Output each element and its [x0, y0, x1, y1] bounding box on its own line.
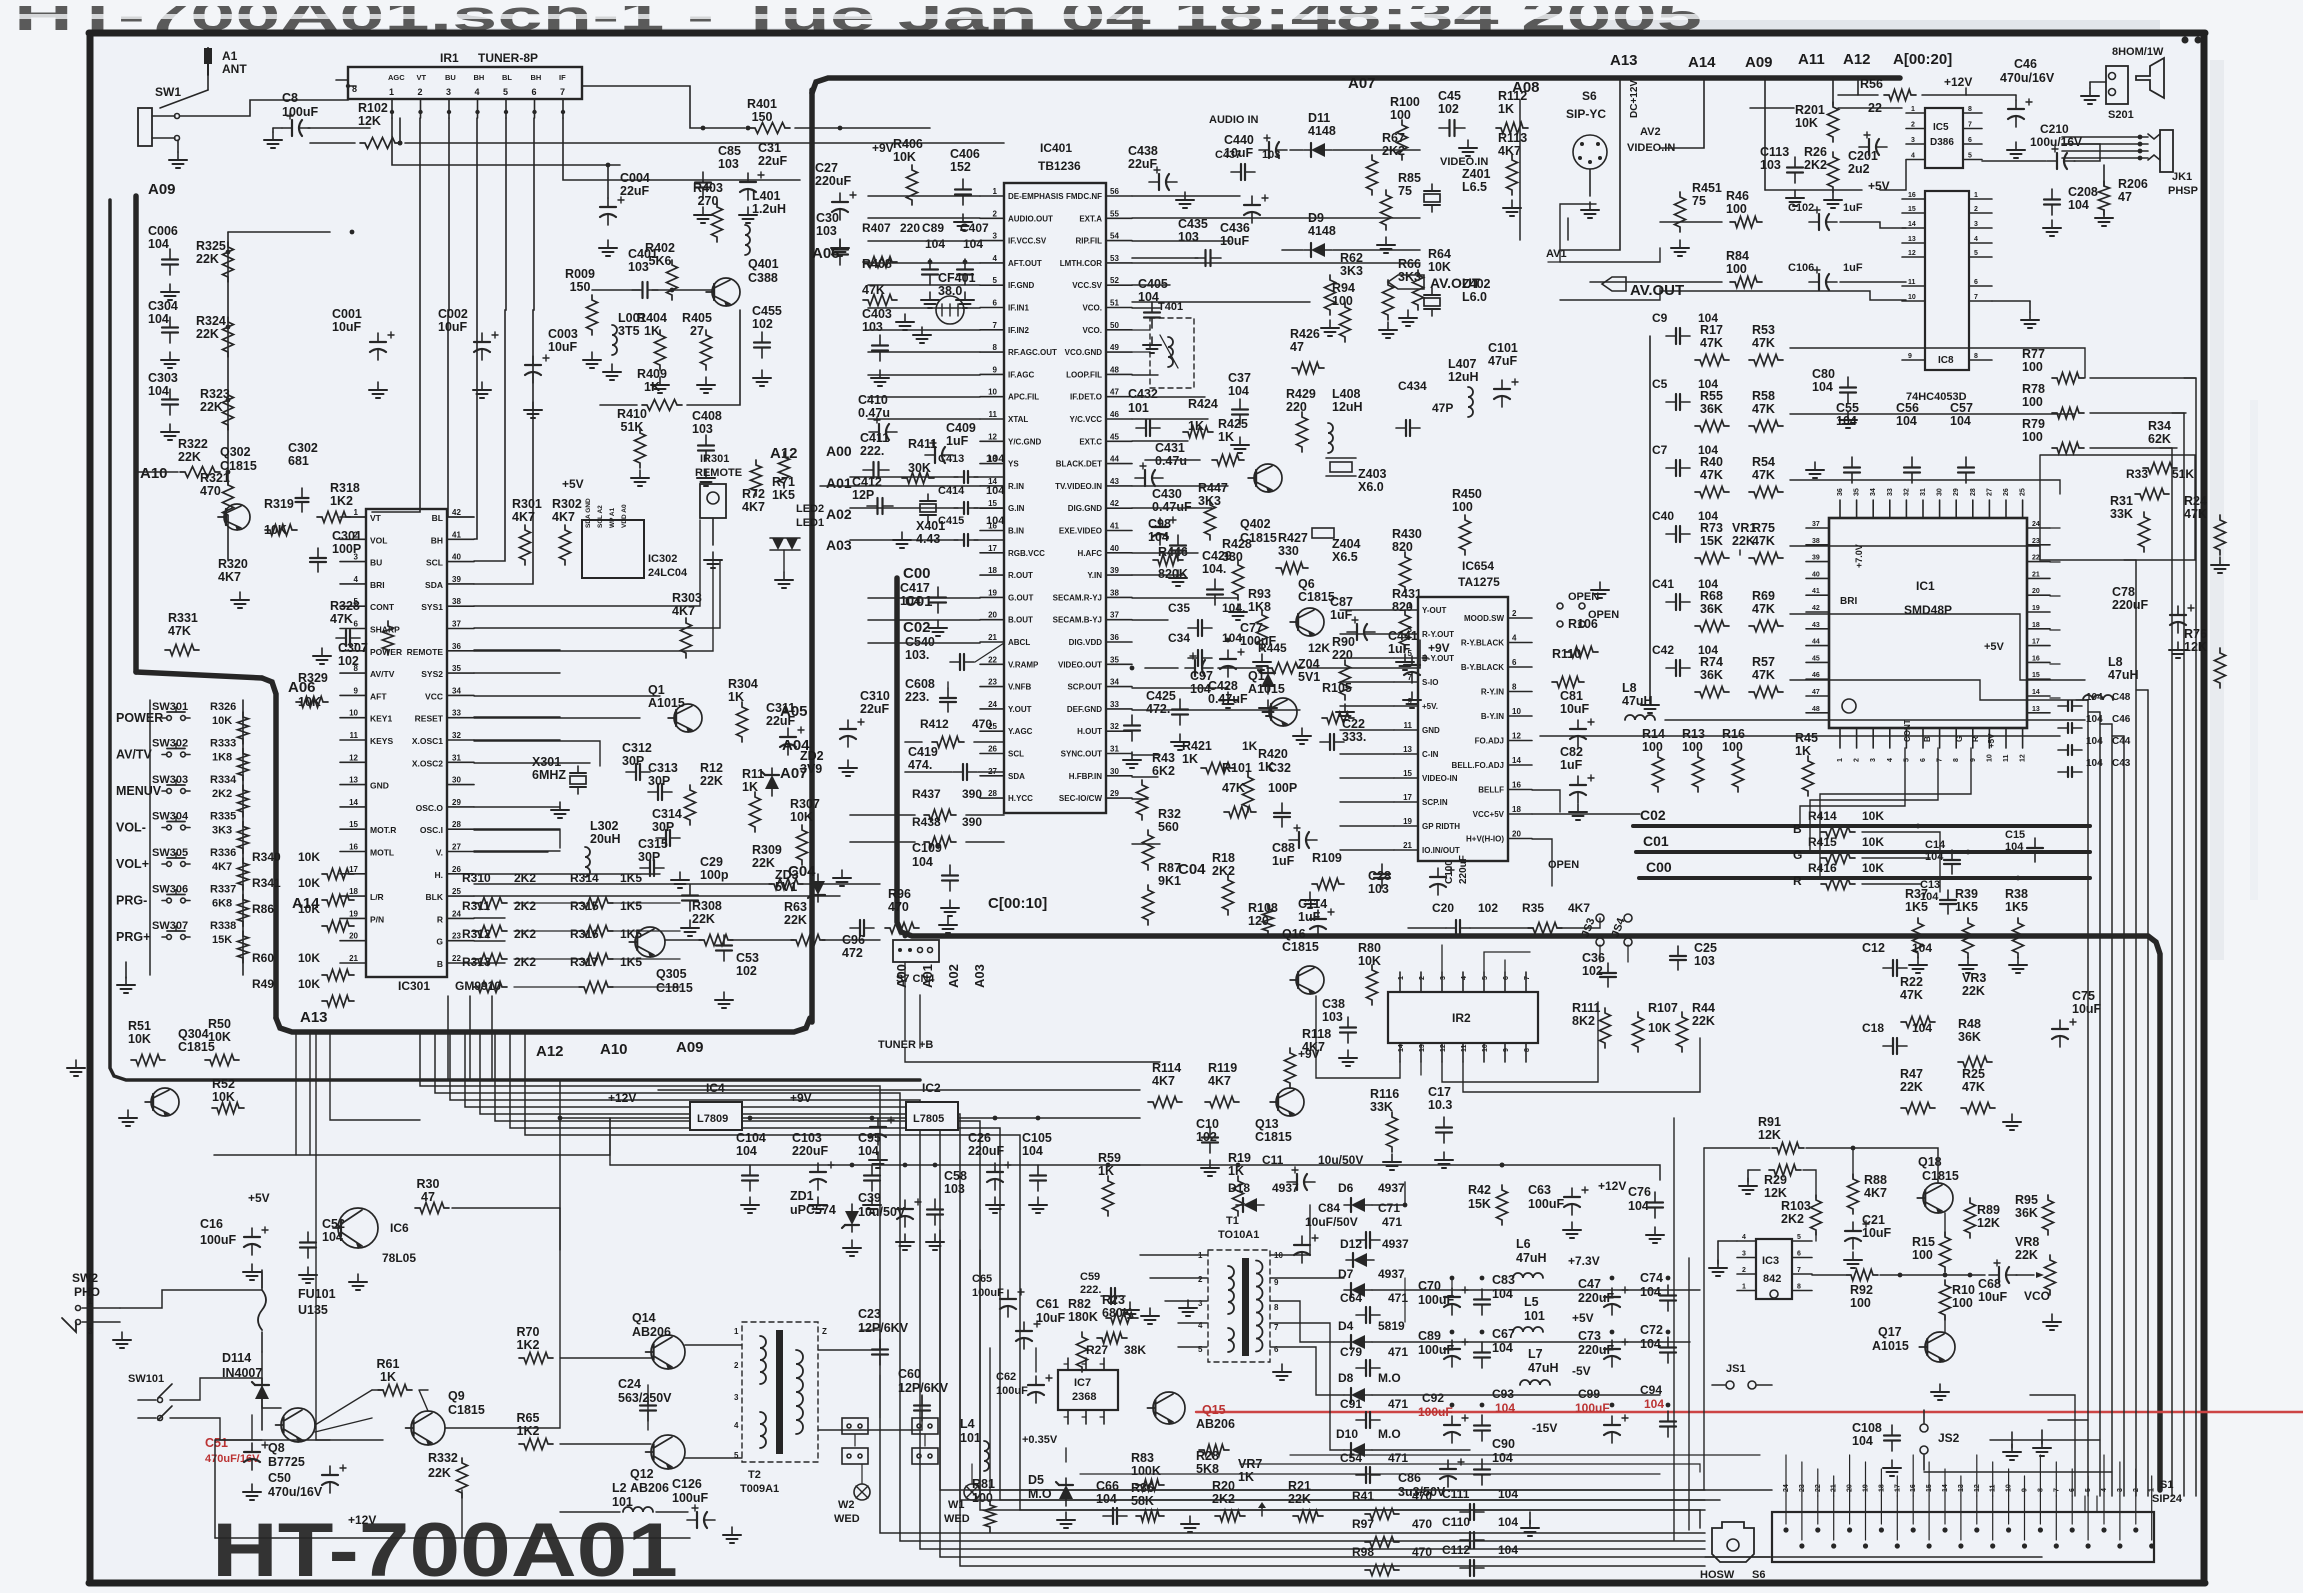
svg-text:R311: R311 — [462, 899, 490, 913]
S1 riser 8 — [2039, 1455, 2041, 1496]
svg-text:S-IO: S-IO — [1422, 678, 1438, 687]
svg-text:C102: C102 — [1788, 202, 1814, 214]
svg-text:Z: Z — [822, 1327, 827, 1336]
svg-text:VOL+: VOL+ — [116, 857, 149, 871]
IC1 bottom pin 8 — [1955, 728, 1957, 748]
wire ic3 row — [1812, 1274, 1845, 1276]
svg-text:M.O: M.O — [1378, 1427, 1401, 1441]
svg-text:Y/C.VCC: Y/C.VCC — [1070, 415, 1103, 424]
S1 riser 11 — [1992, 1462, 1994, 1496]
IC301 pin 20 nc — [340, 940, 366, 942]
svg-text:R303: R303 — [672, 591, 702, 605]
svg-text:R83: R83 — [1131, 1451, 1154, 1465]
svg-text:C408: C408 — [692, 409, 722, 423]
svg-text:Q16: Q16 — [1282, 927, 1306, 941]
wire ic654 r20 drop — [1532, 839, 1552, 886]
svg-text:12P/6KV: 12P/6KV — [898, 1381, 949, 1395]
wire c51 rail — [251, 1415, 253, 1440]
svg-text:38: 38 — [1110, 588, 1119, 597]
svg-text:S1: S1 — [2160, 1479, 2173, 1491]
svg-text:30: 30 — [1110, 767, 1119, 776]
svg-text:47uF: 47uF — [1488, 354, 1518, 368]
svg-text:C26: C26 — [968, 1131, 991, 1145]
svg-text:470: 470 — [1412, 1489, 1432, 1503]
svg-text:Q12: Q12 — [630, 1467, 654, 1481]
svg-text:C441: C441 — [1388, 629, 1418, 643]
IC401 pin 37 SECAM.B-YJ — [1106, 619, 1132, 621]
bus wire right 4 — [2135, 560, 2137, 1496]
svg-text:0.47uF: 0.47uF — [1152, 500, 1192, 514]
svg-text:39: 39 — [1812, 555, 1820, 562]
svg-text:R317: R317 — [570, 955, 599, 969]
svg-text:OSC.O: OSC.O — [416, 803, 444, 813]
svg-text:SIP-YC: SIP-YC — [1566, 107, 1606, 121]
IC7 top pin 2 — [1103, 1358, 1105, 1370]
svg-text:1K5: 1K5 — [620, 955, 642, 969]
svg-text:1: 1 — [354, 508, 359, 517]
svg-text:BLK: BLK — [426, 892, 444, 902]
svg-text:10K: 10K — [128, 1032, 151, 1046]
wire remote row — [474, 560, 713, 651]
svg-text:9: 9 — [1274, 1278, 1279, 1287]
wire ic654 left feed 3 — [1340, 681, 1394, 683]
svg-text:IC654: IC654 — [1462, 559, 1494, 573]
svg-text:R23: R23 — [1102, 1293, 1125, 1307]
svg-text:MENUV: MENUV — [116, 784, 162, 798]
wire ic401 right ext y419 — [1132, 418, 1208, 420]
svg-text:C434: C434 — [1398, 379, 1427, 393]
svg-text:C50: C50 — [268, 1471, 291, 1485]
svg-text:Q305: Q305 — [656, 967, 687, 981]
svg-text:C37: C37 — [1228, 371, 1251, 385]
IC3 pin l0 — [1737, 1240, 1756, 1242]
IC U401 TB1236 body — [1004, 183, 1106, 813]
svg-text:4937: 4937 — [1382, 1237, 1409, 1251]
svg-text:100uF: 100uF — [972, 1287, 1004, 1299]
svg-text:14: 14 — [1512, 756, 1521, 765]
bus A[00:20] top rail — [812, 78, 1900, 93]
svg-text:C92: C92 — [1422, 1391, 1444, 1405]
svg-text:390: 390 — [962, 815, 982, 829]
svg-text:12uH: 12uH — [1332, 400, 1363, 414]
IC401 pin 18 R.OUT — [980, 574, 1004, 576]
wire av out row — [1660, 291, 1906, 300]
wire ir2 p11 out — [1463, 1038, 1700, 1092]
svg-text:A09: A09 — [676, 1039, 704, 1056]
svg-text:IR1: IR1 — [440, 51, 459, 65]
svg-text:C17: C17 — [1428, 1085, 1451, 1099]
svg-text:C419: C419 — [908, 745, 938, 759]
svg-text:D10: D10 — [1336, 1427, 1358, 1441]
svg-text:C30: C30 — [816, 211, 839, 225]
svg-text:4937: 4937 — [1272, 1181, 1299, 1195]
svg-text:A1: A1 — [222, 49, 238, 63]
svg-text:H.OUT: H.OUT — [1077, 727, 1102, 736]
svg-text:5: 5 — [1968, 153, 1972, 160]
svg-text:A11: A11 — [1798, 51, 1825, 68]
S1 pin 4 — [2101, 1527, 2106, 1532]
svg-text:Z403: Z403 — [1358, 467, 1387, 481]
svg-text:104: 104 — [1498, 1515, 1518, 1529]
svg-text:33: 33 — [1110, 700, 1119, 709]
svg-text:C403: C403 — [862, 307, 892, 321]
svg-text:3: 3 — [1870, 758, 1877, 762]
wire ic401 left feed 11 — [868, 597, 980, 599]
svg-text:104: 104 — [1852, 1434, 1873, 1448]
svg-text:R320: R320 — [218, 557, 248, 571]
svg-text:R81: R81 — [972, 1477, 995, 1491]
svg-text:C81: C81 — [1560, 689, 1583, 703]
IC7 bottom pin 1 — [1085, 1410, 1087, 1424]
wire drop BH6 — [474, 118, 534, 584]
wire matrix out3 — [1790, 480, 2060, 494]
svg-text:12K: 12K — [358, 114, 381, 128]
svg-text:6K2: 6K2 — [1152, 764, 1175, 778]
svg-text:PHO: PHO — [74, 1285, 100, 1299]
svg-text:SYNC.OUT: SYNC.OUT — [1061, 750, 1102, 759]
svg-text:13: 13 — [349, 776, 358, 785]
svg-text:8: 8 — [1953, 758, 1960, 762]
wire matrix out4 — [1790, 546, 2040, 560]
svg-text:R301: R301 — [512, 497, 542, 511]
IC1 right pin 18 — [2027, 628, 2050, 630]
svg-text:BRI: BRI — [370, 580, 385, 590]
svg-text:24: 24 — [988, 700, 997, 709]
svg-text:C54: C54 — [1340, 1451, 1362, 1465]
svg-text:10K: 10K — [298, 977, 320, 991]
svg-text:12K: 12K — [1758, 1128, 1781, 1142]
svg-text:R324: R324 — [196, 314, 226, 328]
bus C01 right — [1636, 850, 2090, 854]
wire ic401 right ext y308 — [1132, 307, 1160, 309]
svg-text:AFT.OUT: AFT.OUT — [1008, 259, 1042, 268]
svg-text:IC5: IC5 — [1933, 122, 1949, 133]
svg-text:12: 12 — [2020, 754, 2027, 762]
IC5 pin r7 — [1963, 128, 1982, 130]
S1 pin 2 — [2133, 1527, 2138, 1532]
svg-text:R55: R55 — [1700, 389, 1723, 403]
svg-text:6: 6 — [1974, 279, 1978, 286]
svg-text:10K: 10K — [298, 951, 320, 965]
svg-text:R421: R421 — [1182, 739, 1212, 753]
svg-text:104.: 104. — [1222, 601, 1245, 615]
wire psu caps rail — [1404, 1278, 1406, 1322]
svg-text:KEYS: KEYS — [370, 736, 393, 746]
wire drop BU — [448, 118, 474, 517]
svg-text:47K: 47K — [1700, 468, 1723, 482]
wire r59 rail — [1108, 1165, 1660, 1180]
IC401 pin 42 DIG.GND — [1106, 507, 1132, 509]
IC401 pin 29 SEC-IO/CW — [1106, 797, 1132, 799]
svg-text:3: 3 — [354, 553, 359, 562]
IC5 pin r8 — [1963, 112, 1982, 114]
svg-text:C105: C105 — [1022, 1131, 1052, 1145]
svg-text:100: 100 — [1726, 202, 1747, 216]
IR2 bottom pin 11 — [1462, 1043, 1464, 1062]
svg-text:10K: 10K — [1862, 809, 1884, 823]
svg-text:L8: L8 — [2108, 655, 2123, 669]
svg-text:19: 19 — [988, 588, 997, 597]
S1 riser 19 — [1865, 1462, 1867, 1496]
svg-text:10uF: 10uF — [1224, 146, 1254, 160]
svg-text:1: 1 — [1911, 106, 1915, 113]
svg-text:R307: R307 — [790, 797, 820, 811]
svg-text:10K: 10K — [212, 715, 232, 727]
bus C02 right — [1633, 824, 2090, 828]
svg-text:104: 104 — [1812, 380, 1833, 394]
svg-text:22K: 22K — [196, 252, 219, 266]
IC8 pin l 15 — [1902, 212, 1925, 214]
svg-text:47: 47 — [421, 1190, 435, 1204]
svg-text:C00: C00 — [1646, 859, 1672, 875]
IC401 pin 12 Y/C.GND — [980, 440, 1004, 442]
svg-text:LED1: LED1 — [796, 517, 824, 529]
svg-text:16: 16 — [1908, 192, 1916, 199]
svg-text:47P: 47P — [1432, 401, 1453, 415]
S1 riser 13 — [1960, 1476, 1962, 1496]
svg-text:C93: C93 — [1492, 1387, 1514, 1401]
IC1 bottom pin 11 — [2005, 728, 2007, 748]
wire ic401 right ext y441 — [1132, 440, 1188, 442]
svg-text:47uH: 47uH — [1528, 1361, 1559, 1375]
svg-text:Y.AGC: Y.AGC — [1008, 727, 1033, 736]
svg-text:32: 32 — [1903, 488, 1910, 496]
svg-text:G: G — [1793, 848, 1802, 862]
svg-text:Q9: Q9 — [448, 1389, 465, 1403]
svg-text:C89: C89 — [922, 221, 944, 235]
svg-text:L7805: L7805 — [913, 1113, 944, 1125]
svg-text:OPEN: OPEN — [1588, 609, 1619, 621]
svg-text:22K: 22K — [752, 856, 775, 870]
svg-text:1K: 1K — [1498, 102, 1514, 116]
wire r415 to c14 — [1862, 857, 1930, 859]
svg-text:IC1: IC1 — [1916, 579, 1935, 593]
wire rgb link R312 — [474, 958, 476, 960]
wire left col drop2 — [295, 1032, 297, 1155]
svg-text:48: 48 — [1812, 706, 1820, 713]
svg-text:C414: C414 — [938, 485, 965, 497]
svg-text:15: 15 — [2032, 672, 2040, 679]
bus wire right 3 — [2123, 736, 2125, 1496]
svg-text:AB206: AB206 — [1196, 1417, 1235, 1431]
IC654 pin 5 B-Y.OUT — [1394, 657, 1418, 659]
svg-text:44: 44 — [1110, 455, 1119, 464]
svg-text:Q13: Q13 — [1255, 1117, 1279, 1131]
svg-text:1uF: 1uF — [1298, 910, 1321, 924]
svg-text:A06: A06 — [812, 245, 840, 262]
svg-text:C1815: C1815 — [448, 1403, 485, 1417]
svg-text:C72: C72 — [1640, 1323, 1663, 1337]
wire ic654 left feed 6 — [1340, 753, 1394, 755]
svg-text:3: 3 — [1408, 625, 1413, 634]
open jumpers — [1557, 603, 1563, 609]
IR2 bottom pin 12 — [1441, 1043, 1443, 1062]
IC301 pin 34 VCC — [447, 694, 474, 696]
svg-text:470: 470 — [200, 484, 221, 498]
svg-text:VCC: VCC — [425, 691, 443, 701]
svg-text:IC2: IC2 — [922, 1081, 941, 1095]
IR2 top pin 7 — [1525, 972, 1527, 992]
IC1 pin1 mark — [1842, 699, 1856, 713]
IC654 pin 16 BELLF — [1508, 789, 1532, 791]
bus wire right 8 — [2183, 413, 2185, 1496]
wire sys rows — [474, 560, 720, 628]
svg-text:BELL.FO.ADJ: BELL.FO.ADJ — [1452, 761, 1504, 770]
transistor Q1 A1015 — [1269, 698, 1297, 726]
gnd Q304 — [127, 1110, 129, 1118]
svg-text:C38: C38 — [1322, 997, 1345, 1011]
svg-text:29: 29 — [452, 798, 461, 807]
svg-text:SYS2: SYS2 — [421, 669, 443, 679]
svg-text:47K: 47K — [1222, 781, 1245, 795]
svg-text:3: 3 — [446, 87, 451, 97]
IC3 pin r3 — [1792, 1290, 1812, 1292]
S1 pin 14 — [1942, 1527, 1947, 1532]
svg-text:R102: R102 — [358, 101, 388, 115]
svg-text:C28: C28 — [1368, 869, 1391, 883]
svg-text:C01: C01 — [1643, 833, 1669, 849]
svg-text:C312: C312 — [622, 741, 652, 755]
svg-text:104: 104 — [148, 312, 169, 326]
IC301 pin 23 G — [447, 940, 474, 942]
svg-text:22K: 22K — [1692, 1014, 1715, 1028]
IC401 pin 39 Y.IN — [1106, 574, 1132, 576]
svg-text:103.: 103. — [905, 648, 929, 662]
svg-text:JS1: JS1 — [1726, 1363, 1746, 1375]
wire ic401 right ext y799 — [1132, 798, 1148, 800]
wire r46 row — [1660, 221, 1722, 223]
svg-text:R103: R103 — [1781, 1199, 1811, 1213]
ground at jack — [177, 152, 179, 160]
svg-text:R74: R74 — [1700, 655, 1723, 669]
IC401 pin 51 VCO. — [1106, 307, 1132, 309]
svg-text:DIG.GND: DIG.GND — [1068, 504, 1102, 513]
svg-text:5: 5 — [993, 276, 998, 285]
svg-text:R309: R309 — [752, 843, 782, 857]
IC8 pin r 8 — [1969, 359, 1992, 361]
svg-text:8: 8 — [1524, 1048, 1531, 1052]
IR2 top pin 4 — [1462, 972, 1464, 992]
IC301 pin 36 REMOTE — [447, 650, 474, 652]
S1 pin 13 — [1958, 1543, 1963, 1548]
svg-text:100uF: 100uF — [282, 105, 318, 119]
svg-text:10: 10 — [1908, 294, 1916, 301]
svg-text:38.0: 38.0 — [938, 284, 962, 298]
svg-text:D114: D114 — [222, 1351, 251, 1365]
svg-text:1: 1 — [88, 1297, 93, 1306]
svg-text:47K: 47K — [1752, 336, 1775, 350]
wire ic301 right ext — [474, 850, 560, 852]
svg-text:1K5: 1K5 — [2005, 900, 2028, 914]
svg-text:100: 100 — [1390, 108, 1411, 122]
svg-text:8: 8 — [1968, 106, 1972, 113]
IC401 pin 40 H.AFC — [1106, 552, 1132, 554]
svg-text:C24: C24 — [618, 1377, 641, 1391]
svg-text:40: 40 — [452, 553, 461, 562]
svg-text:15K: 15K — [1468, 1197, 1491, 1211]
svg-text:101: 101 — [960, 1431, 981, 1445]
gnd S1 — [2041, 1440, 2043, 1448]
wire right bundle join — [2084, 1496, 2086, 1512]
svg-text:46: 46 — [1110, 410, 1119, 419]
svg-text:A[00:20]: A[00:20] — [1893, 51, 1952, 68]
svg-text:CONT: CONT — [1903, 719, 1912, 742]
svg-text:10.3: 10.3 — [1428, 1098, 1452, 1112]
svg-text:104: 104 — [736, 1144, 757, 1158]
IR2 top pin 3 — [1441, 972, 1443, 992]
svg-text:10uF: 10uF — [548, 340, 578, 354]
svg-text:R32: R32 — [1158, 807, 1181, 821]
svg-text:R329: R329 — [298, 671, 328, 685]
svg-text:47K: 47K — [1900, 988, 1923, 1002]
wire r61 row — [372, 1389, 383, 1391]
svg-text:C1815: C1815 — [178, 1040, 215, 1054]
svg-text:WED: WED — [944, 1513, 970, 1525]
svg-text:8: 8 — [1797, 1284, 1801, 1291]
IR2 bottom pin 14 — [1399, 1043, 1401, 1062]
IC401 pin 34 SCP.OUT — [1106, 686, 1132, 688]
svg-text:C23: C23 — [858, 1307, 881, 1321]
svg-text:100: 100 — [1452, 500, 1473, 514]
svg-text:SIP24: SIP24 — [2152, 1493, 2183, 1505]
svg-text:1uF: 1uF — [1560, 758, 1583, 772]
svg-text:R321: R321 — [200, 471, 230, 485]
svg-text:C83: C83 — [1492, 1273, 1515, 1287]
transistor Q1 — [674, 704, 702, 732]
svg-text:+9V: +9V — [790, 1091, 812, 1105]
svg-text:10K: 10K — [893, 150, 916, 164]
svg-text:R-Y.IN: R-Y.IN — [1481, 688, 1504, 697]
tuner IR1 TUNER-8P — [348, 67, 582, 99]
svg-text:102: 102 — [1582, 964, 1603, 978]
wire tuner B — [658, 1089, 1140, 1091]
wire a-bus taps — [1660, 78, 1704, 148]
svg-text:25: 25 — [2020, 488, 2027, 496]
svg-text:C310: C310 — [860, 689, 890, 703]
svg-text:POWER: POWER — [116, 711, 163, 725]
IC301 pin 16 MOTL — [340, 851, 366, 853]
svg-text:7: 7 — [1968, 122, 1972, 129]
svg-text:R53: R53 — [1752, 323, 1775, 337]
IC401 pin 33 DEF.GND — [1106, 708, 1132, 710]
svg-text:B: B — [1923, 736, 1932, 742]
svg-text:820: 820 — [1392, 540, 1413, 554]
IC301 pin 22 B — [447, 962, 474, 964]
S1 riser 15 — [1928, 1462, 1930, 1496]
svg-text:26: 26 — [988, 745, 997, 754]
svg-text:HT-700A01: HT-700A01 — [212, 1508, 678, 1593]
svg-text:A09: A09 — [1745, 54, 1773, 71]
IC301 pin 6 SHARP — [340, 628, 366, 630]
svg-text:31: 31 — [1110, 745, 1119, 754]
matrix left rail — [1649, 336, 1651, 700]
svg-text:27: 27 — [452, 843, 461, 852]
svg-text:220uF: 220uF — [815, 174, 851, 188]
svg-text:C86: C86 — [1398, 1471, 1421, 1485]
svg-text:C103: C103 — [792, 1131, 822, 1145]
svg-text:1K5: 1K5 — [620, 899, 642, 913]
IC654 pin 9 +5V. — [1394, 705, 1418, 707]
svg-text:11: 11 — [1908, 279, 1916, 286]
svg-text:1K: 1K — [1238, 1470, 1254, 1484]
svg-text:47K: 47K — [1752, 534, 1775, 548]
IR2 top pin 1 — [1399, 972, 1401, 992]
svg-text:6: 6 — [993, 299, 998, 308]
svg-text:47K: 47K — [1962, 1080, 1985, 1094]
S1 pin 1 — [2149, 1543, 2154, 1548]
svg-text:Q14: Q14 — [632, 1311, 656, 1325]
wire ir2 p13 gnd — [1420, 1062, 1422, 1075]
